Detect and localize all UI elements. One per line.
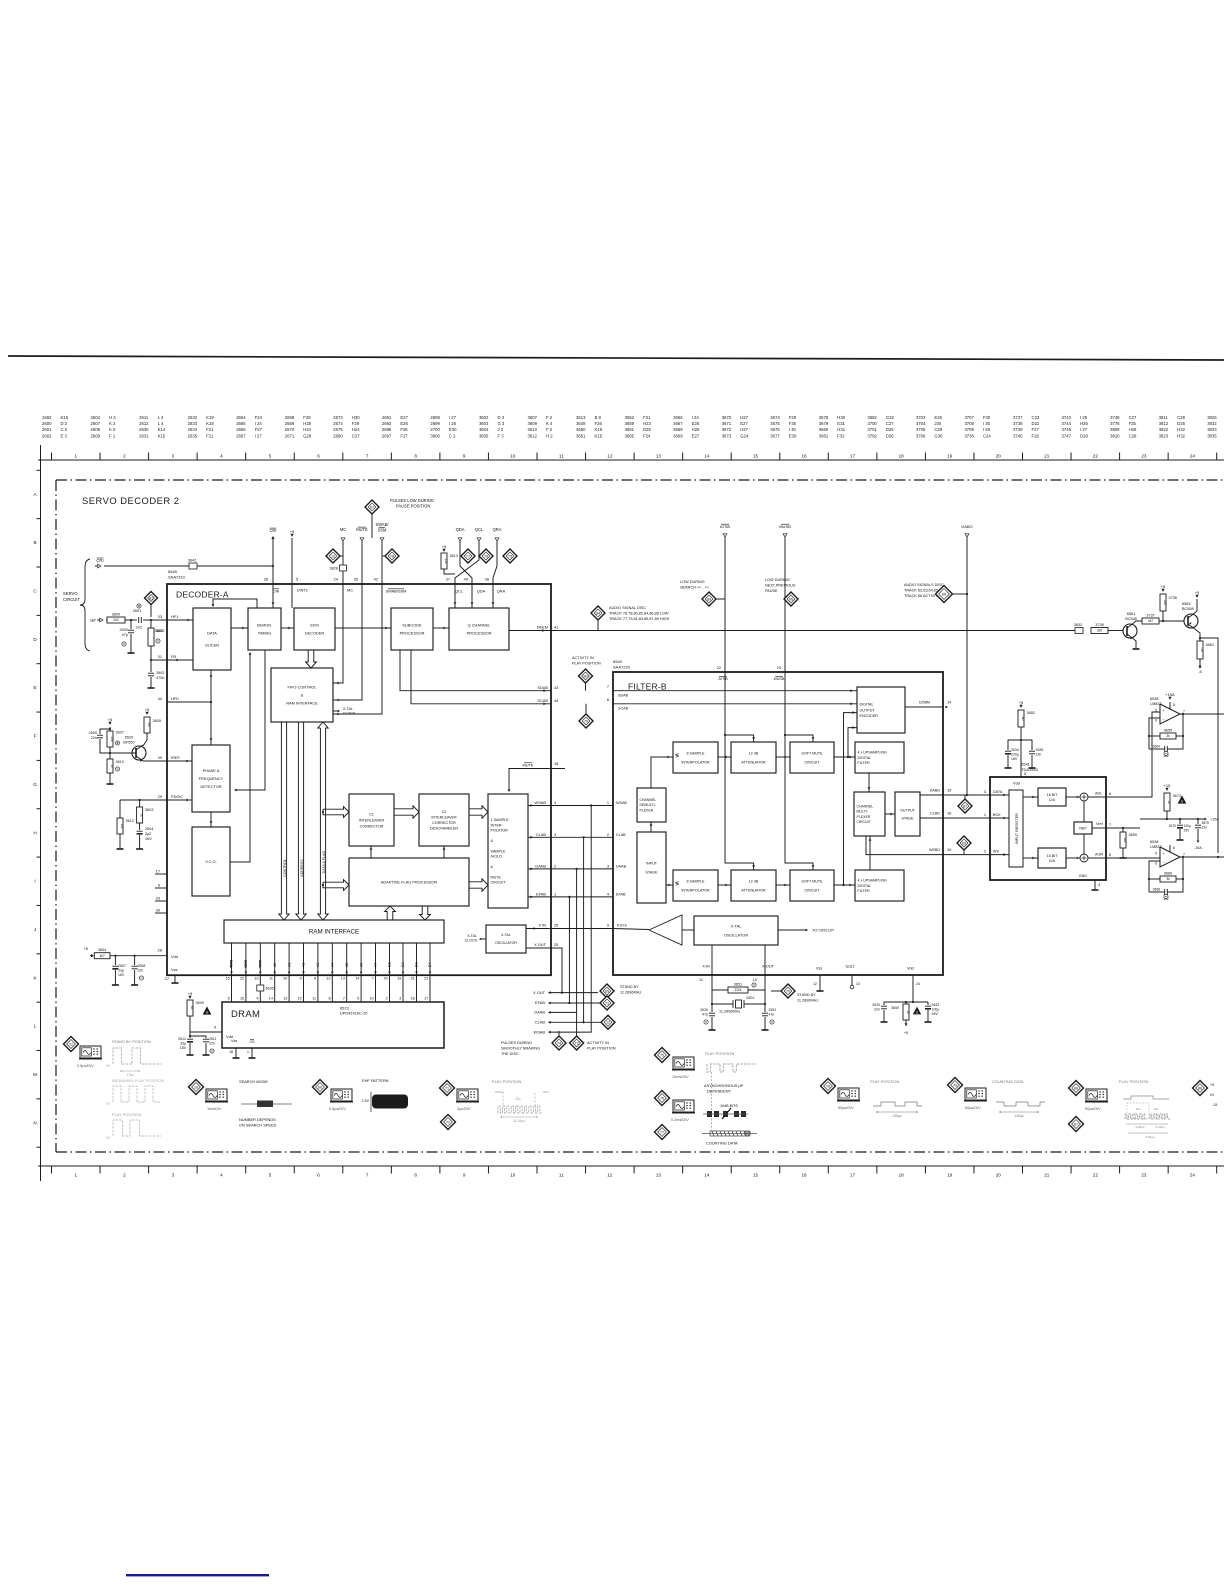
svg-text:4k7: 4k7	[147, 723, 151, 728]
test diamond 75	[655, 1048, 670, 1063]
test diamond 71	[600, 996, 614, 1010]
test diamond 76	[655, 1091, 670, 1106]
svg-text:7: 7	[366, 1173, 369, 1178]
capacitor 2631 47p	[764, 1004, 766, 1012]
svg-text:F 2: F 2	[546, 427, 553, 432]
svg-text:–: –	[1163, 860, 1165, 864]
block REF	[1074, 822, 1092, 834]
svg-text:6538: 6538	[1150, 840, 1158, 844]
svg-text:3604: 3604	[98, 948, 106, 952]
svg-text:2612: 2612	[178, 1037, 186, 1041]
svg-text:470n: 470n	[156, 676, 164, 680]
svg-text:2690: 2690	[333, 433, 343, 438]
svg-text:19: 19	[947, 1173, 953, 1178]
wire WS into DAC	[990, 854, 1009, 856]
wire MUTE pin 18	[509, 769, 565, 792]
svg-text:K15: K15	[158, 433, 166, 438]
test diamond 74	[558, 1031, 560, 1036]
svg-text:C27: C27	[1129, 415, 1137, 420]
svg-text:H31: H31	[837, 427, 845, 432]
svg-text:12 dB: 12 dB	[749, 751, 759, 755]
svg-text:TO CIRCUIT: TO CIRCUIT	[812, 928, 835, 933]
transistor 6561 emitter ground	[1133, 639, 1136, 646]
svg-text:+5: +5	[188, 991, 193, 996]
svg-text:4 x UPSAMPLING: 4 x UPSAMPLING	[858, 878, 888, 882]
svg-text:12: 12	[298, 997, 302, 1001]
svg-text:E26: E26	[400, 421, 408, 426]
block DEMOD TIMING	[248, 608, 281, 650]
wire base	[110, 752, 136, 754]
svg-text:+5: +5	[1161, 584, 1166, 589]
svg-text:78: 78	[826, 1084, 830, 1088]
wire BCK into DAC	[990, 817, 1009, 819]
svg-text:E27: E27	[692, 433, 700, 438]
svg-text:220µ: 220µ	[1011, 753, 1019, 757]
svg-text:A4: A4	[331, 963, 335, 967]
svg-text:2632: 2632	[188, 415, 198, 420]
block X-TAL OSCILLATOR decoder	[486, 925, 526, 953]
svg-text:76: 76	[484, 554, 488, 558]
svg-text:12 dB: 12 dB	[749, 879, 759, 883]
svg-text:H 3: H 3	[109, 415, 116, 420]
svg-text:CLAB: CLAB	[536, 832, 547, 837]
decoder stub pins 17 6 33 39	[155, 873, 167, 875]
svg-text:37: 37	[446, 577, 450, 582]
block DATA SLICER	[193, 608, 231, 670]
svg-text:H28: H28	[1129, 427, 1137, 432]
svg-text:+: +	[1163, 709, 1165, 713]
wire subcode to SDAB	[400, 650, 551, 691]
svg-text:3738: 3738	[1013, 421, 1023, 426]
svg-text:FIFO CONTROL: FIFO CONTROL	[288, 684, 318, 689]
wire to circuit	[778, 929, 806, 931]
svg-text:D1: D1	[388, 962, 392, 967]
wire PFD to VCO	[210, 812, 212, 827]
svg-text:3671: 3671	[722, 421, 732, 426]
svg-text:ADL: ADL	[1095, 792, 1102, 796]
svg-text:2630: 2630	[700, 1008, 708, 1012]
svg-text:SCAB: SCAB	[618, 707, 629, 711]
svg-text:3609: 3609	[528, 421, 538, 426]
svg-text:15: 15	[753, 453, 759, 458]
svg-text:28: 28	[158, 948, 162, 953]
svg-text:F21: F21	[206, 433, 214, 438]
resistor 3602	[150, 620, 152, 628]
svg-text:K15: K15	[61, 415, 69, 420]
svg-text:3651: 3651	[734, 982, 742, 986]
block C1 interleaver corrector	[349, 794, 394, 846]
svg-text:CORRECTOR: CORRECTOR	[360, 824, 384, 828]
svg-text:CIRCUIT: CIRCUIT	[805, 888, 821, 892]
svg-text:320: 320	[1097, 629, 1103, 633]
svg-text:79: 79	[584, 719, 588, 723]
transistor 6561 collector to 3737	[1133, 621, 1142, 624]
svg-text:RAM INTERFACE: RAM INTERFACE	[286, 700, 318, 705]
svg-text:3635: 3635	[265, 986, 273, 990]
svg-text:INPUT REGISTER: INPUT REGISTER	[1015, 813, 1019, 844]
svg-text:50µs/DIV: 50µs/DIV	[965, 1106, 981, 1110]
op2 feedback loop resistor 3666 cap 2668	[1149, 861, 1160, 892]
svg-text:K19: K19	[595, 427, 603, 432]
svg-text:1: 1	[247, 1050, 249, 1054]
block 8 sample interpolator bottom	[673, 870, 718, 901]
svg-text:F27: F27	[1032, 427, 1040, 432]
svg-text:18: 18	[899, 1173, 905, 1178]
svg-text:8: 8	[1173, 846, 1175, 850]
svg-text:K 2: K 2	[109, 427, 116, 432]
svg-text:75: 75	[508, 554, 512, 558]
memory bus lines RAM interface to DRAM	[231, 943, 233, 1002]
svg-text:DAAB: DAAB	[535, 863, 546, 868]
svg-text:TRACK 77,79,81,83,85,87,89 H: TRACK 77,79,81,83,85,87,89 HIGH	[609, 617, 670, 621]
svg-text:3835: 3835	[1207, 433, 1217, 438]
svg-text:22k: 22k	[1163, 600, 1167, 605]
svg-text:3826: 3826	[1207, 415, 1217, 420]
svg-text:3670: 3670	[722, 415, 732, 420]
svg-text:X-TAL: X-TAL	[501, 933, 511, 937]
svg-text:65: 65	[962, 841, 966, 845]
svg-text:6: 6	[607, 697, 609, 702]
wire demod to efm	[281, 627, 294, 629]
svg-text:69: 69	[605, 989, 609, 993]
svg-text:CLBD: CLBD	[930, 812, 940, 816]
svg-text:CIRCUIT: CIRCUIT	[857, 820, 872, 824]
svg-text:H24: H24	[303, 427, 311, 432]
svg-text:UPD41416C-20: UPD41416C-20	[340, 1011, 368, 1016]
svg-text:3676: 3676	[770, 427, 780, 432]
svg-text:D 3: D 3	[497, 415, 504, 420]
bus ADDRESS	[296, 722, 306, 920]
svg-text:4k7: 4k7	[1148, 619, 1153, 623]
svg-text:13: 13	[341, 977, 345, 981]
svg-text:J 2: J 2	[497, 427, 503, 432]
svg-text:3669: 3669	[673, 433, 683, 438]
svg-text:26: 26	[554, 923, 558, 928]
frame top ruler	[38, 459, 1224, 461]
svg-text:6520: 6520	[125, 736, 133, 740]
svg-text:17: 17	[850, 453, 856, 458]
svg-text:E30: E30	[789, 433, 797, 438]
svg-text:PAUSE POSITION: PAUSE POSITION	[396, 504, 430, 509]
svg-text:3673: 3673	[722, 433, 732, 438]
svg-text:73: 73	[575, 1041, 579, 1045]
svg-text:SERVO: SERVO	[63, 591, 78, 596]
svg-text:PHASE &: PHASE &	[203, 768, 220, 773]
svg-text:DAAB: DAAB	[616, 864, 627, 868]
block channel demultiplexer	[637, 788, 666, 822]
svg-text:15: 15	[947, 788, 951, 793]
svg-text:F 3: F 3	[497, 433, 504, 438]
wire EFAB vertical to row	[549, 897, 569, 1003]
svg-text:+15A: +15A	[1210, 818, 1219, 822]
svg-text:13: 13	[856, 982, 860, 986]
test diamond 87 bottom	[1069, 1117, 1084, 1132]
wire VCO output up to demod	[230, 653, 250, 862]
test diamond 66 large	[936, 586, 953, 603]
svg-text:6540: 6540	[613, 659, 623, 664]
svg-text:13: 13	[283, 997, 287, 1001]
svg-text:G30: G30	[934, 433, 943, 438]
+5 and resistor 3613	[442, 549, 445, 552]
svg-text:ON SEARCH SPEED: ON SEARCH SPEED	[239, 1123, 277, 1128]
wire soft mute bottom to encoder	[844, 713, 858, 885]
svg-text:1k: 1k	[110, 764, 114, 768]
svg-text:17µs: 17µs	[127, 1073, 134, 1077]
svg-text:5: 5	[269, 1173, 272, 1178]
test diamond 79 bottom	[948, 1078, 963, 1093]
svg-text:QDA: QDA	[477, 589, 486, 594]
svg-text:1: 1	[75, 453, 78, 458]
scope icon 0.2ms	[673, 1100, 694, 1112]
svg-text:4k7: 4k7	[190, 1006, 194, 1011]
svg-text:24: 24	[1190, 1173, 1196, 1178]
svg-text:WSAB: WSAB	[535, 800, 547, 805]
svg-text:FREQUENCY: FREQUENCY	[199, 776, 224, 781]
block VCO	[192, 827, 230, 896]
svg-text:2609: 2609	[91, 433, 101, 438]
test diamond 73	[576, 1012, 578, 1036]
svg-text:11.2896MHz: 11.2896MHz	[797, 999, 818, 1003]
svg-text:76: 76	[660, 1096, 664, 1100]
bus AFP to RAM down	[420, 906, 431, 920]
svg-text:6: 6	[1155, 862, 1157, 866]
6563 emitter node	[1194, 629, 1200, 642]
svg-text:C29: C29	[1177, 415, 1185, 420]
summing node right channel	[1080, 854, 1088, 862]
resistor 3738 320	[1091, 628, 1108, 634]
svg-text:MUSB: MUSB	[774, 677, 785, 681]
svg-text:7: 7	[1183, 710, 1185, 714]
svg-text:10: 10	[510, 1173, 516, 1178]
svg-text:8: 8	[314, 977, 316, 981]
svg-text:DATA: DATA	[993, 790, 1003, 794]
svg-text:136µs: 136µs	[892, 1114, 901, 1118]
svg-text:STAGE: STAGE	[645, 870, 658, 874]
svg-text:CLOCK: CLOCK	[465, 939, 478, 943]
svg-text:7: 7	[1183, 853, 1185, 857]
svg-text:6538: 6538	[1150, 697, 1158, 701]
svg-text:23: 23	[1141, 453, 1147, 458]
bottom-left blue bar	[126, 1574, 269, 1576]
capacitor 2600 47p	[130, 620, 132, 629]
svg-text:C 2: C 2	[61, 427, 68, 432]
wire interp to attenuator top	[718, 756, 731, 758]
test diamond 12 row	[601, 1015, 615, 1029]
svg-text:A0: A0	[273, 963, 277, 967]
svg-text:EHF PATTERN: EHF PATTERN	[362, 1078, 389, 1083]
svg-text:PLAY POSITION: PLAY POSITION	[492, 1079, 521, 1084]
resistor 3600 2k2	[107, 617, 125, 623]
svg-text:A5: A5	[345, 963, 349, 967]
svg-text:2: 2	[123, 453, 126, 458]
row extensions to diamonds	[562, 992, 598, 994]
test diamond 12 scope standby	[64, 1037, 79, 1052]
svg-text:10k: 10k	[120, 824, 124, 829]
svg-text:X-TAL: X-TAL	[467, 934, 477, 938]
wire SWAB into FIFO	[333, 584, 382, 714]
svg-text:6561: 6561	[1127, 612, 1135, 616]
svg-text:I 27: I 27	[1080, 427, 1088, 432]
svg-text:1: 1	[607, 800, 609, 805]
bus RAM to AFP up	[385, 906, 396, 920]
wire QCHAN DEEM out	[509, 630, 551, 632]
svg-text:C1: C1	[369, 812, 374, 816]
svg-text:2: 2	[123, 1173, 126, 1178]
svg-text:E27: E27	[740, 421, 748, 426]
+5 supply for 3605	[145, 712, 148, 715]
svg-text:+15: +15	[1164, 783, 1172, 788]
svg-text:2664: 2664	[1153, 745, 1161, 749]
svg-text:E26: E26	[692, 421, 700, 426]
wire HFD pin	[167, 701, 211, 703]
scope icon 10ms	[673, 1057, 694, 1069]
svg-text:EFAB: EFAB	[535, 1000, 545, 1005]
svg-text:3667: 3667	[673, 421, 683, 426]
svg-text:2673: 2673	[333, 415, 343, 420]
wire FB to decoder	[151, 659, 193, 661]
bus C2 to interpolator	[469, 806, 488, 818]
svg-text:SEARCH << , >>: SEARCH << , >>	[680, 586, 710, 590]
svg-text:3: 3	[984, 789, 986, 794]
svg-text:22: 22	[240, 977, 244, 981]
scope icon 50us 2	[965, 1088, 986, 1100]
svg-text:DIGITAL: DIGITAL	[858, 756, 872, 760]
svg-text:66: 66	[318, 1085, 322, 1089]
svg-text:H26: H26	[692, 427, 700, 432]
svg-text:33µ: 33µ	[118, 969, 124, 973]
svg-text:77: 77	[466, 554, 470, 558]
svg-text:15: 15	[753, 1173, 759, 1178]
svg-text:47p: 47p	[122, 633, 128, 637]
svg-text:Vdd: Vdd	[1013, 781, 1020, 786]
svg-text:2699: 2699	[430, 421, 440, 426]
svg-text:D28: D28	[1080, 433, 1088, 438]
svg-text:OUTPUT: OUTPUT	[860, 708, 876, 712]
block INPUT REGISTER	[1009, 790, 1023, 867]
svg-text:3706: 3706	[916, 433, 926, 438]
svg-text:DECODER-A: DECODER-A	[176, 590, 229, 600]
block 12dB attenuator top	[731, 742, 776, 773]
scope icon 50us 1	[838, 1088, 859, 1100]
svg-text:KSYS: KSYS	[617, 924, 627, 928]
svg-text:ATTENUATOR: ATTENUATOR	[741, 888, 766, 892]
wire emitter to IREF	[143, 760, 193, 762]
svg-text:71: 71	[445, 1086, 449, 1090]
svg-text:RAM INTERFACE: RAM INTERFACE	[309, 929, 359, 936]
svg-text:6: 6	[317, 453, 320, 458]
ground	[109, 773, 111, 780]
svg-text:F21: F21	[643, 415, 651, 420]
svg-text:2668: 2668	[1153, 888, 1161, 892]
svg-text:11: 11	[312, 997, 316, 1001]
svg-text:3605: 3605	[153, 719, 161, 723]
op1 output wire	[1183, 713, 1224, 715]
svg-text:3707: 3707	[964, 415, 974, 420]
svg-text:21: 21	[1044, 453, 1050, 458]
+5 resistor 3652	[1019, 705, 1022, 708]
svg-text:THE DISC: THE DISC	[501, 1052, 519, 1056]
block DIGITAL OUTPUT ENCODER	[857, 687, 905, 733]
svg-text:TRACK 76,78,80,82,84,86,88 L: TRACK 76,78,80,82,84,86,88 LOW	[609, 612, 669, 616]
svg-text:18: 18	[899, 453, 905, 458]
+5 resistor 3609 for DRAM	[188, 996, 191, 999]
svg-text:+: +	[1163, 852, 1165, 856]
block input stage	[637, 832, 666, 903]
svg-text:D26: D26	[1177, 421, 1185, 426]
svg-text:MUTE: MUTE	[522, 763, 533, 768]
resistor 3651 220k	[712, 989, 728, 991]
svg-text:20: 20	[996, 453, 1002, 458]
svg-text:INPUT: INPUT	[646, 861, 658, 865]
svg-text:C23: C23	[1032, 415, 1040, 420]
block 16 BIT D/A bottom	[1038, 848, 1066, 868]
svg-text:+5: +5	[290, 529, 295, 534]
svg-text:16V: 16V	[1011, 757, 1018, 761]
svg-text:3704: 3704	[916, 421, 926, 426]
svg-text:SEARCH MODE: SEARCH MODE	[239, 1079, 268, 1084]
wire soft mute to upsampling top	[834, 756, 855, 758]
op1 feedback loop resistor 3655 cap 2664	[1149, 718, 1160, 749]
svg-text:WS: WS	[993, 850, 999, 854]
block FIFO CONTROL RAM INTERFACE	[271, 668, 333, 722]
svg-text:3652: 3652	[625, 415, 635, 420]
svg-text:H32: H32	[1177, 427, 1185, 432]
svg-text:I: I	[34, 879, 35, 884]
svg-text:4: 4	[220, 1173, 223, 1178]
svg-text:3: 3	[554, 832, 556, 837]
svg-text:Vss: Vss	[171, 967, 178, 972]
svg-text:LOW DURING: LOW DURING	[765, 578, 790, 582]
svg-text:POLATOR: POLATOR	[491, 828, 509, 832]
svg-text:BEGINNING PLAY POSITION: BEGINNING PLAY POSITION	[112, 1078, 164, 1083]
svg-text:Vdd: Vdd	[907, 967, 914, 971]
svg-text:M: M	[33, 1072, 37, 1077]
svg-text:H30: H30	[352, 415, 360, 420]
svg-text:14: 14	[355, 977, 359, 981]
svg-text:WSAB: WSAB	[534, 1030, 546, 1035]
wire EFAB out	[528, 896, 613, 898]
svg-text:39: 39	[156, 908, 160, 913]
resistor 3650	[903, 1004, 909, 1020]
svg-text:2670: 2670	[1169, 824, 1177, 828]
svg-text:11.34µs: 11.34µs	[513, 1119, 525, 1123]
svg-text:PLAY POSITION: PLAY POSITION	[705, 1051, 734, 1056]
svg-text:19: 19	[194, 1085, 198, 1089]
svg-text:3655: 3655	[1164, 728, 1172, 732]
svg-text:PLAY POSITION: PLAY POSITION	[112, 1112, 141, 1117]
test diamond 69 stand by	[600, 984, 614, 998]
svg-text:14: 14	[269, 997, 273, 1001]
wire to Vdd pin 28	[110, 955, 166, 957]
svg-text:2675: 2675	[333, 427, 343, 432]
svg-text:6541: 6541	[1021, 762, 1031, 767]
svg-text:K14: K14	[158, 427, 166, 432]
svg-text:3602: 3602	[479, 415, 489, 420]
svg-text:CORRECTOR: CORRECTOR	[432, 821, 456, 825]
test diamond 71 bottom	[440, 1081, 455, 1096]
svg-text:SDAB: SDAB	[537, 685, 548, 690]
wire slicer to demod	[231, 627, 248, 629]
svg-text:DETECTOR: DETECTOR	[200, 784, 222, 789]
wire soft mute top to encoder	[848, 728, 857, 757]
svg-text:+5: +5	[145, 707, 150, 712]
svg-text:H28: H28	[303, 421, 311, 426]
svg-text:DESCRAMBLER: DESCRAMBLER	[430, 826, 458, 830]
svg-text:–: –	[1163, 717, 1165, 721]
svg-text:F29: F29	[789, 415, 797, 420]
svg-text:4k7: 4k7	[100, 954, 105, 958]
svg-text:3822: 3822	[1159, 427, 1169, 432]
